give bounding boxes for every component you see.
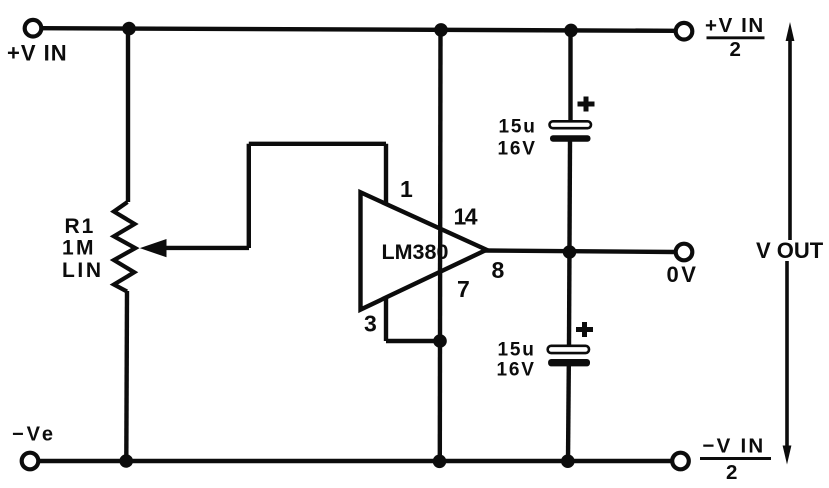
junction dot bottom-left rail: [119, 454, 133, 468]
junction dot top-left rail: [122, 22, 136, 36]
junction dot top middle rail: [434, 23, 448, 37]
svg-text:1: 1: [400, 176, 413, 202]
wire loop top horizontal: [249, 142, 386, 146]
wire pin 1 drop: [384, 144, 388, 204]
svg-text:−V IN: −V IN: [703, 434, 766, 457]
svg-text:15u: 15u: [498, 339, 536, 360]
svg-text:14: 14: [454, 204, 478, 230]
label -V IN over 2: [700, 434, 771, 484]
wire middle rail through op-amp: [438, 228, 443, 272]
resistor R1 1M LIN potentiometer zigzag: [114, 202, 135, 292]
svg-text:0V: 0V: [667, 262, 699, 287]
wire pin 3 vertical: [384, 296, 388, 341]
wire left rail upper segment: [126, 28, 130, 202]
svg-text:8: 8: [492, 257, 505, 283]
terminal +V IN (open circle): [25, 20, 42, 37]
svg-text:V OUT: V OUT: [756, 238, 824, 263]
svg-text:LM380: LM380: [382, 240, 449, 264]
V OUT down arrow: [783, 261, 792, 465]
capacitor C2 plus polarity sign: [576, 322, 593, 337]
wire bottom rail: [38, 459, 672, 463]
wire capacitor rail middle segment: [569, 141, 570, 346]
svg-text:15u: 15u: [499, 116, 537, 137]
capacitor C2 bottom plate (solid): [548, 359, 590, 366]
terminal -V IN/2 (open circle): [672, 453, 689, 470]
label C2 value 15u 16V: [497, 339, 536, 380]
wire wiper vertical riser: [247, 144, 251, 248]
terminal -Ve (open circle): [22, 453, 39, 470]
label C1 value 15u 16V: [498, 116, 537, 159]
label R1 1M LIN: [62, 215, 104, 282]
junction dot output node: [563, 245, 577, 259]
svg-text:−Ve: −Ve: [12, 423, 56, 445]
terminal 0V (open circle): [676, 244, 693, 261]
svg-text:R1: R1: [65, 215, 96, 238]
junction dot pin 3 node: [433, 334, 447, 348]
wire top rail: [42, 28, 675, 31]
junction dot bottom capacitor rail: [561, 454, 575, 468]
svg-text:1M: 1M: [62, 237, 96, 260]
wire capacitor rail upper segment: [568, 30, 572, 121]
label +V IN over 2: [705, 14, 765, 61]
wire pin 3 horizontal: [386, 339, 440, 343]
wire wiper horizontal stub: [164, 246, 249, 250]
capacitor C1 top plate (hollow): [550, 121, 592, 128]
wiper arrow of R1: [140, 239, 167, 257]
junction dot bottom middle rail: [433, 455, 447, 469]
svg-text:LIN: LIN: [62, 259, 104, 282]
svg-text:+V IN: +V IN: [7, 41, 68, 66]
capacitor C2 top plate (hollow): [548, 346, 589, 353]
svg-text:16V: 16V: [498, 138, 537, 159]
wire middle rail (pins 14/7): [438, 30, 443, 461]
capacitor C1 plus polarity sign: [578, 97, 595, 112]
wire capacitor rail lower segment: [566, 366, 571, 461]
svg-text:3: 3: [364, 311, 377, 337]
capacitor C1 bottom plate (solid): [550, 135, 591, 141]
svg-text:2: 2: [726, 461, 737, 484]
junction dot top capacitor rail: [564, 24, 578, 38]
svg-text:2: 2: [730, 38, 741, 61]
wire left rail lower segment: [124, 291, 129, 461]
op-amp U1 LM380 triangle body: [361, 192, 487, 309]
V OUT up arrow: [786, 22, 795, 240]
svg-text:+V IN: +V IN: [705, 14, 765, 37]
svg-text:16V: 16V: [497, 360, 536, 381]
svg-text:7: 7: [457, 276, 470, 302]
terminal +V IN/2 (open circle): [676, 23, 693, 40]
wire output (pin 8 to 0V terminal): [484, 251, 674, 253]
